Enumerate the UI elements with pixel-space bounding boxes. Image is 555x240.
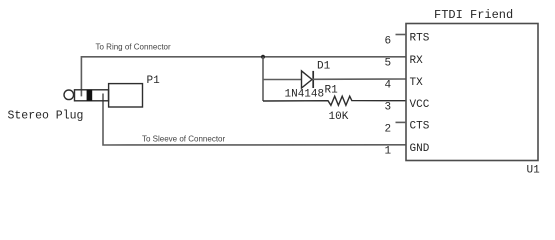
svg-text:P1: P1 [147,75,161,87]
svg-text:RTS: RTS [410,33,430,45]
svg-text:To Sleeve of Connector: To Sleeve of Connector [142,134,225,143]
pin 6 stub RTS [396,34,407,36]
svg-text:TX: TX [410,77,424,89]
stereo plug P1: insulator band (filled) [87,90,93,101]
node: junction of ring wire with diode/resistor branch [261,55,265,59]
svg-text:D1: D1 [317,61,331,73]
stereo plug P1: shaft [75,90,109,101]
stereo plug P1: body [109,84,143,107]
svg-text:VCC: VCC [410,99,430,111]
svg-text:1: 1 [385,146,392,158]
svg-text:Stereo Plug: Stereo Plug [8,110,84,123]
svg-text:10K: 10K [329,111,349,123]
resistor R1 10K [263,96,406,105]
svg-text:CTS: CTS [410,121,430,133]
diode D1 1N4148 [302,71,314,88]
svg-text:FTDI Friend: FTDI Friend [434,8,513,22]
svg-text:5: 5 [385,58,392,70]
wire: branch vertical from junction down to resistor row [262,57,264,101]
svg-text:3: 3 [385,102,392,114]
svg-text:To Ring of Connector: To Ring of Connector [96,42,171,51]
wire: diode row right segment to TX pin 4 [313,78,406,80]
pin 2 stub CTS [396,121,407,123]
svg-text:U1: U1 [527,165,541,177]
wire: To Sleeve of Connector (sleeve contact to GND pin 1) [103,94,406,146]
FTDI Friend box U1 [406,24,538,161]
wire: To Ring of Connector (ring contact to RX pin 5) [81,57,406,97]
svg-text:6: 6 [385,36,392,48]
svg-text:1N4148: 1N4148 [285,89,325,101]
stereo plug P1: tip circle [64,90,74,100]
svg-text:GND: GND [410,143,430,155]
svg-text:2: 2 [385,124,392,136]
wire: diode row left segment [263,79,302,81]
svg-text:4: 4 [385,80,392,92]
svg-text:R1: R1 [325,85,339,97]
svg-text:RX: RX [410,55,424,67]
